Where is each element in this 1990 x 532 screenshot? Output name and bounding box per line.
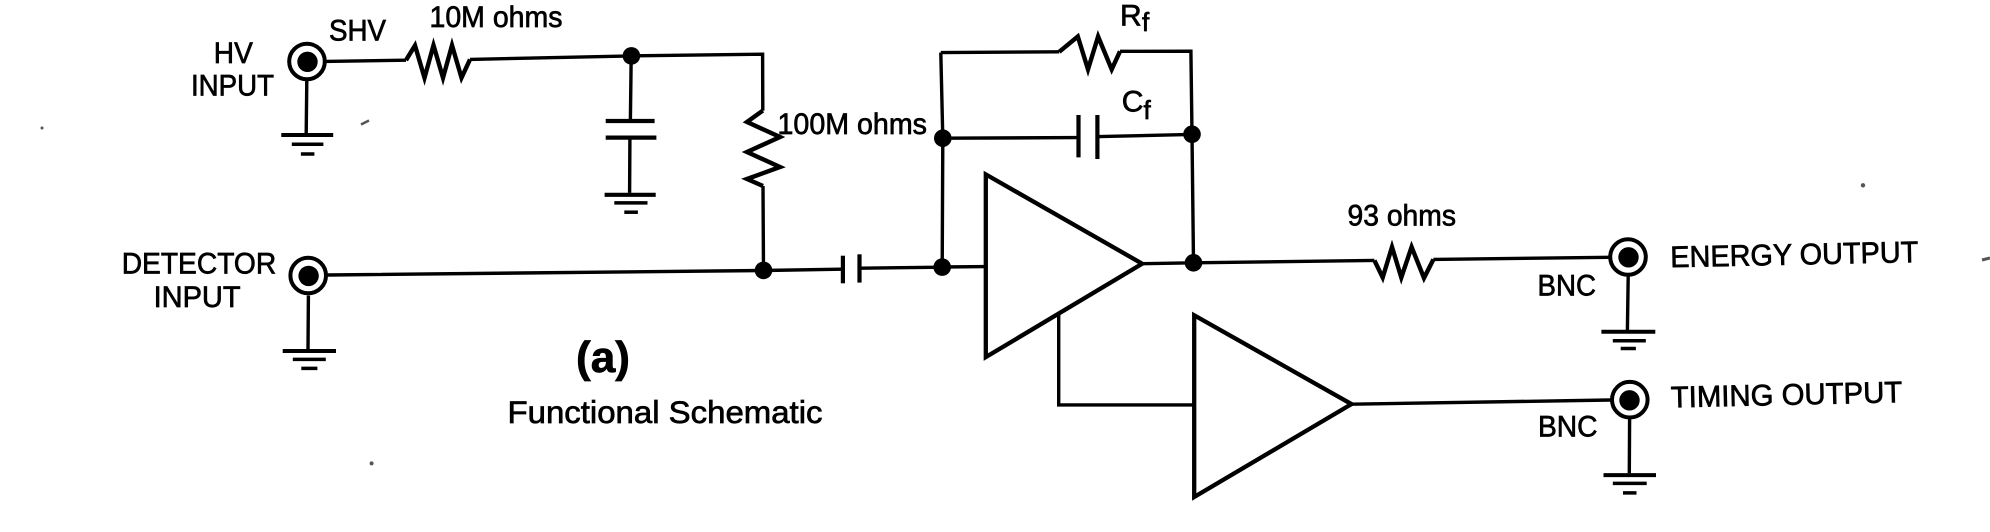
svg-text:HV: HV (214, 37, 253, 70)
svg-text:BNC: BNC (1538, 269, 1597, 302)
label DETECTOR INPUT (122, 247, 277, 314)
svg-text:f: f (1142, 7, 1150, 37)
wire node C to op-amp U1 (942, 265, 986, 269)
capacitor C1 (HV filter) (606, 121, 657, 138)
svg-text:TIMING OUTPUT: TIMING OUTPUT (1670, 376, 1902, 414)
node C (junction dot, amplifier input) (933, 258, 951, 276)
svg-text:R: R (1120, 0, 1142, 32)
node F (junction dot, output) (1185, 254, 1203, 272)
capacitor C2 (coupling) (843, 254, 860, 283)
svg-text:C: C (1122, 86, 1144, 119)
svg-text:f: f (1144, 95, 1152, 125)
svg-text:INPUT: INPUT (191, 70, 274, 103)
label Rf (1120, 0, 1150, 37)
wire top feedback left segment (941, 50, 1059, 54)
label Cf (1122, 86, 1152, 125)
wire node A down to capacitor C1 (629, 56, 633, 119)
label HV INPUT (191, 37, 274, 103)
svg-text:Functional Schematic: Functional Schematic (508, 394, 823, 430)
node B (junction dot) (755, 262, 773, 280)
svg-text:10M ohms: 10M ohms (430, 1, 563, 34)
wire C2 to node C (861, 267, 942, 268)
wire C1 to ground (628, 140, 632, 193)
ground (under C1) (605, 195, 656, 212)
wire U1 output to node F (1142, 260, 1374, 263)
capacitor Cf (1079, 115, 1098, 159)
wire tap from U1 to U2 input (1059, 314, 1194, 405)
wire node A to corner above 100M resistor (631, 54, 762, 110)
svg-text:100M ohms: 100M ohms (778, 108, 928, 141)
wire Cf to node E (1099, 134, 1192, 136)
wire detector input to node B and coupling capacitor (327, 269, 841, 275)
connector J2 (detector input) (290, 258, 326, 294)
wire R3 to energy output connector (1433, 257, 1609, 259)
resistor R1 10M ohms (406, 45, 470, 78)
svg-text:INPUT: INPUT (154, 281, 241, 314)
svg-text:ENERGY OUTPUT: ENERGY OUTPUT (1670, 236, 1919, 274)
wire R2 to node B (761, 186, 765, 270)
wire Rf to right feedback corner and down to output (1120, 51, 1194, 263)
connector J1 SHV (HV input) (289, 44, 325, 80)
connector J3 BNC (energy output) (1610, 239, 1646, 275)
svg-text:(a): (a) (576, 333, 630, 382)
op-amp U2 (timing amplifier) (1194, 315, 1351, 497)
op-amp U1 (energy amplifier) (986, 174, 1142, 357)
wire node D to Cf (943, 136, 1077, 140)
node D (junction dot, Cf left) (934, 129, 952, 147)
wire HV connector to R1 (326, 60, 407, 61)
svg-text:SHV: SHV (329, 15, 386, 48)
resistor R2 100M ohms (vertical) (747, 111, 780, 186)
wire U2 output to timing output connector (1352, 400, 1611, 404)
ground (timing output) (1604, 419, 1657, 493)
ground (detector input) (283, 296, 336, 369)
svg-text:93 ohms: 93 ohms (1348, 199, 1457, 232)
resistor Rf (1059, 37, 1120, 70)
ground (HV input) (281, 81, 333, 155)
resistor R3 93 ohms (1374, 247, 1433, 278)
node A (junction dot) (623, 47, 641, 65)
wire R1 to node A (470, 56, 631, 60)
ground (energy output) (1601, 276, 1655, 349)
connector J4 BNC (timing output) (1612, 382, 1648, 418)
wire feedback left vertical (941, 53, 943, 267)
node E (junction dot, Cf right) (1183, 126, 1201, 144)
svg-text:DETECTOR: DETECTOR (122, 247, 277, 280)
svg-text:BNC: BNC (1538, 411, 1598, 444)
